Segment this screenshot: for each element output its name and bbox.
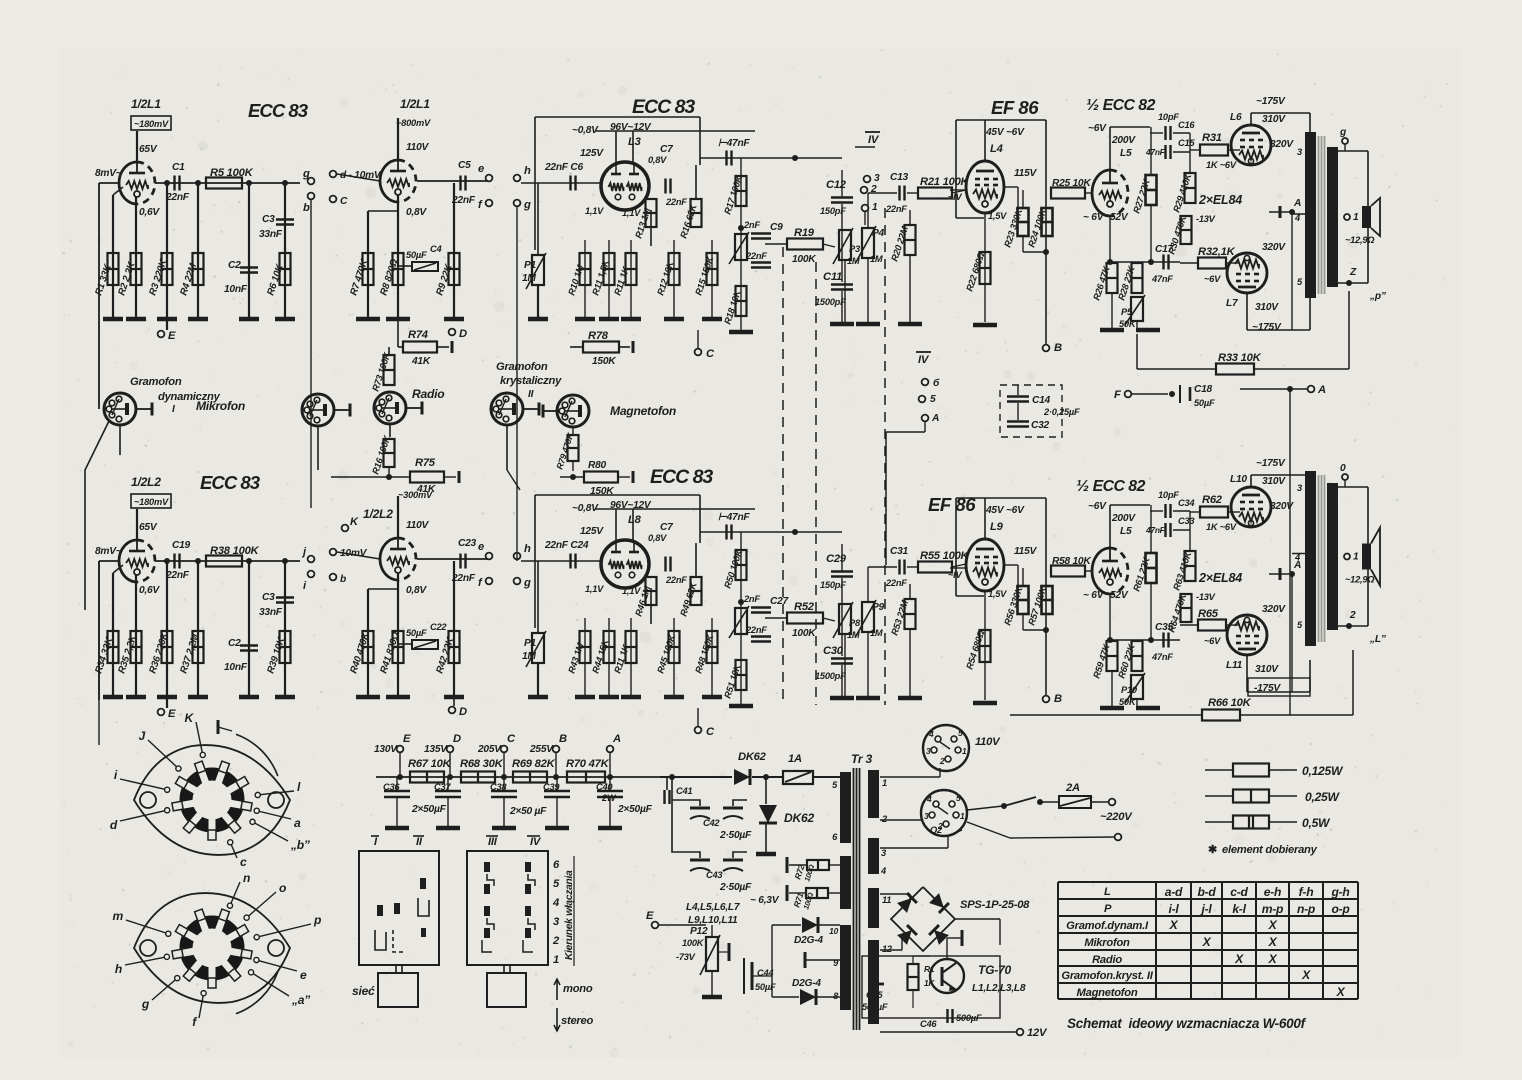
svg-text:1: 1 <box>1353 552 1359 563</box>
svg-text:Magnetofon: Magnetofon <box>1077 987 1138 999</box>
svg-text:2nF: 2nF <box>743 594 760 604</box>
svg-text:R62: R62 <box>1202 494 1223 506</box>
svg-text:R78: R78 <box>588 330 609 342</box>
svg-text:50K: 50K <box>1119 697 1137 707</box>
svg-text:D2G-4: D2G-4 <box>794 935 823 946</box>
svg-text:310V: 310V <box>1255 302 1279 313</box>
svg-text:C39: C39 <box>543 782 560 792</box>
svg-text:III: III <box>488 836 498 848</box>
svg-text:500µF: 500µF <box>956 1013 982 1023</box>
svg-text:50µF: 50µF <box>1194 398 1215 408</box>
svg-text:ECC 83: ECC 83 <box>632 96 695 118</box>
svg-text:E: E <box>168 708 176 720</box>
svg-text:b: b <box>340 574 346 585</box>
svg-text:22nF C6: 22nF C6 <box>544 162 583 173</box>
svg-text:C40: C40 <box>596 782 613 792</box>
svg-text:0: 0 <box>1340 463 1346 474</box>
svg-text:2A: 2A <box>1065 782 1080 794</box>
svg-text:R19: R19 <box>794 227 815 239</box>
svg-text:X: X <box>1336 985 1346 999</box>
svg-text:~175V: ~175V <box>1256 96 1286 107</box>
svg-text:Gramof.dynam.I: Gramof.dynam.I <box>1066 920 1149 932</box>
svg-text:10nF: 10nF <box>224 284 248 295</box>
svg-text:X: X <box>1268 918 1278 932</box>
svg-text:Radio: Radio <box>1092 954 1122 966</box>
svg-text:200V: 200V <box>1111 513 1136 524</box>
svg-text:1,1V: 1,1V <box>622 208 641 218</box>
svg-text:k-l: k-l <box>1232 902 1246 916</box>
svg-text:1,1V: 1,1V <box>585 584 604 594</box>
svg-text:125V: 125V <box>580 526 604 537</box>
svg-text:3: 3 <box>874 173 880 184</box>
svg-text:R74: R74 <box>408 329 429 341</box>
svg-text:2: 2 <box>939 756 945 766</box>
svg-text:n-p: n-p <box>1297 902 1315 916</box>
svg-text:C2: C2 <box>228 638 241 649</box>
svg-text:o-p: o-p <box>1331 902 1349 916</box>
svg-text:L: L <box>1104 886 1111 898</box>
svg-text:C34: C34 <box>1178 498 1195 508</box>
svg-text:E: E <box>646 910 654 922</box>
svg-text:0,6V: 0,6V <box>139 585 160 596</box>
svg-text:h: h <box>524 543 531 555</box>
svg-text:52V: 52V <box>1110 590 1129 601</box>
svg-text:J: J <box>139 729 146 743</box>
svg-text:~180mV: ~180mV <box>134 497 169 507</box>
svg-text:1: 1 <box>1353 212 1359 223</box>
svg-text:1/2L2: 1/2L2 <box>363 507 393 521</box>
svg-text:C22: C22 <box>430 622 447 632</box>
svg-text:h: h <box>524 165 531 177</box>
svg-text:100K: 100K <box>792 628 816 639</box>
svg-text:R33 10K: R33 10K <box>1218 352 1262 364</box>
svg-text:P9: P9 <box>872 602 885 613</box>
svg-text:DK62: DK62 <box>784 811 814 825</box>
svg-text:R80: R80 <box>588 460 607 471</box>
svg-text:C18: C18 <box>1194 384 1213 395</box>
svg-text:1/2L1: 1/2L1 <box>131 97 161 111</box>
svg-text:C32: C32 <box>1031 420 1050 431</box>
svg-text:2·50µF: 2·50µF <box>719 882 752 893</box>
svg-text:R58 10K: R58 10K <box>1052 556 1091 567</box>
svg-text:150K: 150K <box>592 356 616 367</box>
svg-text:1,5V: 1,5V <box>988 589 1007 599</box>
svg-text:1,1V: 1,1V <box>585 206 604 216</box>
svg-text:½ ECC 82: ½ ECC 82 <box>1086 97 1156 114</box>
svg-text:-175V: -175V <box>1254 683 1281 694</box>
svg-text:C5: C5 <box>458 160 471 171</box>
svg-text:C: C <box>340 196 348 207</box>
svg-text:110V: 110V <box>975 736 1001 748</box>
svg-text:500µF: 500µF <box>862 1002 888 1012</box>
svg-text:P1: P1 <box>524 260 537 271</box>
svg-text:P4: P4 <box>872 228 885 239</box>
svg-text:X: X <box>1234 952 1244 966</box>
svg-text:ECC 83: ECC 83 <box>200 472 261 493</box>
svg-text:0,25W: 0,25W <box>1305 790 1341 804</box>
svg-text:Q2: Q2 <box>930 825 943 835</box>
svg-text:stereo: stereo <box>561 1015 593 1027</box>
svg-text:3: 3 <box>553 916 560 928</box>
svg-text:47nF: 47nF <box>1151 652 1173 662</box>
svg-text:C7: C7 <box>660 144 674 155</box>
svg-text:1: 1 <box>882 778 887 788</box>
svg-text:33nF: 33nF <box>259 607 283 618</box>
svg-text:1: 1 <box>872 202 878 213</box>
svg-text:C9: C9 <box>770 222 783 233</box>
svg-text:b-d: b-d <box>1197 885 1216 899</box>
svg-text:g: g <box>302 168 310 180</box>
svg-text:~12,9Ω: ~12,9Ω <box>1345 575 1375 585</box>
svg-text:L4,L5,L6,L7: L4,L5,L6,L7 <box>686 902 741 913</box>
svg-text:R32,1K: R32,1K <box>1198 246 1236 258</box>
svg-text:C30: C30 <box>823 645 844 657</box>
svg-text:P3: P3 <box>849 244 861 254</box>
svg-text:L3: L3 <box>628 136 642 148</box>
svg-text:C4: C4 <box>430 244 442 254</box>
svg-text:o: o <box>279 881 286 895</box>
svg-text:2×50 µF: 2×50 µF <box>509 806 547 817</box>
svg-text:E: E <box>403 733 411 745</box>
svg-text:50µF: 50µF <box>406 250 427 260</box>
svg-text:Gramofon.kryst. II: Gramofon.kryst. II <box>1061 970 1153 982</box>
svg-text:„a”: „a” <box>291 993 311 1007</box>
svg-text:41K: 41K <box>411 356 431 367</box>
svg-text:135V: 135V <box>424 744 448 755</box>
svg-text:C29: C29 <box>826 553 847 565</box>
svg-text:L9: L9 <box>990 521 1004 533</box>
svg-text:~ 6,3V: ~ 6,3V <box>750 895 780 906</box>
svg-text:C: C <box>706 726 715 738</box>
svg-text:0,125W: 0,125W <box>1302 764 1344 778</box>
svg-text:22nF C24: 22nF C24 <box>544 540 589 551</box>
svg-text:50µF: 50µF <box>755 982 776 992</box>
svg-text:1,5V: 1,5V <box>988 211 1007 221</box>
svg-text:I: I <box>172 404 175 415</box>
svg-text:65V: 65V <box>139 144 158 155</box>
svg-text:110V: 110V <box>406 142 429 153</box>
svg-text:-13V: -13V <box>1196 592 1216 602</box>
svg-text:R52: R52 <box>794 601 815 613</box>
svg-text:10: 10 <box>829 926 838 936</box>
svg-text:R69 82K: R69 82K <box>512 758 556 770</box>
svg-text:C38: C38 <box>490 782 507 792</box>
svg-text:22nF: 22nF <box>165 192 190 203</box>
svg-text:L1,L2,L3,L8: L1,L2,L3,L8 <box>972 983 1026 994</box>
svg-text:50µF: 50µF <box>406 628 427 638</box>
svg-text:Z: Z <box>1349 267 1357 278</box>
svg-text:L11: L11 <box>1226 660 1243 671</box>
svg-text:C15: C15 <box>1178 138 1195 148</box>
svg-text:R55 100K: R55 100K <box>920 550 970 562</box>
svg-text:e: e <box>478 541 484 553</box>
svg-text:8mV~: 8mV~ <box>95 546 122 557</box>
svg-text:5: 5 <box>956 793 961 803</box>
svg-text:P10: P10 <box>1121 685 1138 695</box>
svg-text:A: A <box>1293 198 1301 209</box>
svg-text:~180mV: ~180mV <box>134 119 169 129</box>
svg-text:C19: C19 <box>172 540 191 551</box>
svg-text:2×EL84: 2×EL84 <box>1198 571 1242 585</box>
svg-text:0,8V: 0,8V <box>406 207 427 218</box>
svg-text:0,6V: 0,6V <box>139 207 160 218</box>
svg-text:115V: 115V <box>1014 546 1037 557</box>
svg-text:0,8V: 0,8V <box>406 585 427 596</box>
svg-text:320V: 320V <box>1262 604 1286 615</box>
svg-text:C3: C3 <box>262 592 275 603</box>
svg-text:~6V: ~6V <box>1204 274 1221 284</box>
svg-text:Radio: Radio <box>412 387 444 401</box>
svg-text:R1: R1 <box>924 964 935 974</box>
svg-text:1M: 1M <box>522 651 536 662</box>
svg-text:22nF: 22nF <box>885 204 907 214</box>
svg-text:Schemat ideowy wzmacniacza W-: Schemat ideowy wzmacniacza W-600f <box>1067 1016 1307 1031</box>
svg-text:L8: L8 <box>628 514 642 526</box>
svg-text:P1: P1 <box>524 638 537 649</box>
svg-text:p: p <box>313 913 321 927</box>
svg-text:g-h: g-h <box>1330 885 1349 899</box>
svg-text:R75: R75 <box>415 457 436 469</box>
svg-text:1,1V: 1,1V <box>622 586 641 596</box>
svg-text:41K: 41K <box>416 484 436 495</box>
svg-text:47nF: 47nF <box>1145 147 1166 157</box>
svg-text:d: d <box>110 818 118 832</box>
svg-text:~175V: ~175V <box>1256 458 1286 469</box>
svg-text:2·0,25µF: 2·0,25µF <box>1043 407 1080 417</box>
svg-text:m-p: m-p <box>1262 902 1283 916</box>
svg-text:DK62: DK62 <box>738 751 767 763</box>
svg-text:2×50µF: 2×50µF <box>617 804 653 815</box>
svg-text:1M: 1M <box>870 254 883 264</box>
svg-text:R31: R31 <box>1202 132 1222 144</box>
svg-text:C11: C11 <box>823 271 842 283</box>
svg-text:~6V: ~6V <box>1204 636 1221 646</box>
svg-text:C2: C2 <box>228 260 241 271</box>
svg-text:C37: C37 <box>434 782 451 792</box>
svg-text:Gramofon: Gramofon <box>130 376 182 388</box>
svg-text:47nF: 47nF <box>1151 274 1173 284</box>
svg-text:a-d: a-d <box>1165 885 1183 899</box>
svg-text:D: D <box>459 706 467 718</box>
svg-text:X: X <box>1301 968 1311 982</box>
svg-text:10pF: 10pF <box>1158 112 1179 122</box>
svg-text:E: E <box>168 330 176 342</box>
svg-text:1K ~6V: 1K ~6V <box>1206 522 1237 532</box>
svg-text:h: h <box>115 962 122 976</box>
svg-text:L10: L10 <box>1230 474 1247 485</box>
svg-text:б: б <box>933 377 940 389</box>
svg-text:„p”: „p” <box>1369 291 1387 302</box>
svg-text:~6V: ~6V <box>1088 501 1107 512</box>
svg-text:2nF: 2nF <box>743 220 760 230</box>
svg-text:TG-70: TG-70 <box>978 963 1012 977</box>
svg-text:320V: 320V <box>1262 242 1286 253</box>
svg-text:~220V: ~220V <box>1100 811 1133 823</box>
svg-text:„L”: „L” <box>1369 634 1387 645</box>
svg-text:L4: L4 <box>990 143 1004 155</box>
svg-text:1/2L1: 1/2L1 <box>400 97 430 111</box>
svg-text:22nF: 22nF <box>745 251 767 261</box>
svg-text:P8: P8 <box>849 618 861 628</box>
svg-text:100K: 100K <box>682 938 705 948</box>
svg-text:Gramofon: Gramofon <box>496 361 548 373</box>
svg-text:P12: P12 <box>690 926 708 937</box>
svg-text:Mikrofon: Mikrofon <box>196 399 245 413</box>
svg-text:e: e <box>478 163 484 175</box>
svg-text:a: a <box>294 816 301 830</box>
svg-text:Kierunek włączania: Kierunek włączania <box>564 870 575 960</box>
svg-text:45V ~6V: 45V ~6V <box>985 505 1025 516</box>
svg-text:4: 4 <box>926 794 932 804</box>
svg-text:5: 5 <box>553 878 560 890</box>
svg-text:115V: 115V <box>1014 168 1037 179</box>
svg-text:EF 86: EF 86 <box>991 97 1039 118</box>
svg-text:D2G-4: D2G-4 <box>792 978 821 989</box>
svg-text:A: A <box>612 733 621 745</box>
svg-text:~175V: ~175V <box>1252 322 1282 333</box>
svg-text:12: 12 <box>882 944 893 954</box>
svg-text:C27: C27 <box>770 596 790 607</box>
svg-text:i-l: i-l <box>1169 902 1180 916</box>
svg-text:2·50µF: 2·50µF <box>719 830 752 841</box>
svg-text:-73V: -73V <box>676 952 696 962</box>
svg-text:3: 3 <box>924 811 929 821</box>
svg-text:100K: 100K <box>792 254 816 265</box>
svg-text:150K: 150K <box>590 486 614 497</box>
svg-text:5: 5 <box>930 394 936 405</box>
svg-text:sieć: sieć <box>352 984 375 998</box>
svg-text:Tr 3: Tr 3 <box>851 752 872 766</box>
svg-text:R67 10K: R67 10K <box>408 758 452 770</box>
svg-text:C41: C41 <box>676 786 692 796</box>
svg-text:e: e <box>300 968 307 982</box>
svg-text:4: 4 <box>552 897 560 909</box>
svg-text:12V: 12V <box>1027 1027 1048 1039</box>
svg-text:C33: C33 <box>1178 516 1195 526</box>
svg-text:⊢47nF: ⊢47nF <box>718 512 750 523</box>
svg-text:C12: C12 <box>826 179 847 191</box>
svg-text:c: c <box>240 855 247 869</box>
svg-text:2: 2 <box>552 935 560 947</box>
svg-text:~IV: ~IV <box>948 192 963 202</box>
svg-text:g: g <box>523 577 531 589</box>
svg-text:C16: C16 <box>1178 120 1195 130</box>
svg-text:33nF: 33nF <box>259 229 283 240</box>
svg-text:5: 5 <box>958 728 963 738</box>
svg-text:10pF: 10pF <box>1158 490 1179 500</box>
svg-text:3: 3 <box>926 746 931 756</box>
svg-text:110V: 110V <box>406 520 429 531</box>
svg-text:22nF: 22nF <box>885 578 907 588</box>
svg-text:C36: C36 <box>383 782 400 792</box>
svg-text:n: n <box>243 871 250 885</box>
svg-text:~ 6V: ~ 6V <box>1083 590 1105 601</box>
svg-text:~IV: ~IV <box>948 570 963 580</box>
svg-text:22nF: 22nF <box>165 570 190 581</box>
svg-text:P5: P5 <box>1121 307 1133 317</box>
svg-text:1M: 1M <box>522 273 536 284</box>
svg-text:~ 6V: ~ 6V <box>1083 212 1105 223</box>
svg-text:22nF: 22nF <box>665 575 687 585</box>
svg-text:~6V: ~6V <box>1088 123 1107 134</box>
svg-text:0,5W: 0,5W <box>1302 816 1331 830</box>
svg-text:22nF: 22nF <box>745 625 767 635</box>
svg-text:47nF: 47nF <box>1145 525 1166 535</box>
svg-text:R70 47K: R70 47K <box>566 758 610 770</box>
svg-text:A: A <box>1317 384 1326 396</box>
svg-text:C31: C31 <box>890 546 909 557</box>
svg-text:m: m <box>112 909 123 923</box>
svg-text:125V: 125V <box>580 148 604 159</box>
svg-text:65V: 65V <box>139 522 158 533</box>
svg-text:ECC 83: ECC 83 <box>248 100 309 121</box>
svg-text:130V: 130V <box>374 744 398 755</box>
svg-text:g: g <box>141 997 150 1011</box>
svg-text:45V ~6V: 45V ~6V <box>985 127 1025 138</box>
svg-text:j-l: j-l <box>1200 902 1213 916</box>
svg-text:mono: mono <box>563 983 593 995</box>
svg-text:R5 100K: R5 100K <box>210 167 254 179</box>
svg-text:-13V: -13V <box>1196 214 1216 224</box>
svg-text:B: B <box>1054 693 1062 705</box>
svg-text:f-h: f-h <box>1299 885 1314 899</box>
svg-text:1: 1 <box>553 954 559 966</box>
svg-text:Magnetofon: Magnetofon <box>610 404 676 418</box>
svg-text:b: b <box>303 202 310 214</box>
svg-text:X: X <box>1268 952 1278 966</box>
svg-text:C46: C46 <box>920 1019 937 1029</box>
svg-text:C: C <box>507 733 516 745</box>
svg-text:krystaliczny: krystaliczny <box>500 375 562 387</box>
svg-text:L6: L6 <box>1230 112 1242 123</box>
svg-text:R66 10K: R66 10K <box>1208 697 1252 709</box>
svg-text:310V: 310V <box>1262 476 1286 487</box>
svg-text:D: D <box>459 328 467 340</box>
svg-text:C23: C23 <box>458 538 477 549</box>
svg-text:L7: L7 <box>1226 298 1239 309</box>
svg-text:II: II <box>528 389 534 400</box>
svg-text:320V: 320V <box>1270 139 1294 150</box>
svg-text:C: C <box>706 348 715 360</box>
svg-text:A: A <box>931 413 939 424</box>
svg-text:52V: 52V <box>1110 212 1129 223</box>
svg-text:g: g <box>523 199 531 211</box>
svg-text:✱: ✱ <box>1208 844 1217 856</box>
svg-text:310V: 310V <box>1255 664 1279 675</box>
svg-text:X: X <box>1169 918 1179 932</box>
svg-text:R65: R65 <box>1198 608 1219 620</box>
svg-text:22nF: 22nF <box>665 197 687 207</box>
svg-text:~800mV: ~800mV <box>396 118 431 128</box>
svg-text:10nF: 10nF <box>224 662 248 673</box>
svg-text:C7: C7 <box>660 522 674 533</box>
svg-text:11: 11 <box>882 895 891 905</box>
svg-text:P: P <box>1104 903 1112 915</box>
svg-text:EF 86: EF 86 <box>928 494 976 515</box>
svg-text:205V: 205V <box>477 744 502 755</box>
svg-text:1: 1 <box>960 811 965 821</box>
svg-text:C3: C3 <box>262 214 275 225</box>
svg-text:B: B <box>559 733 567 745</box>
svg-text:Mikrofon: Mikrofon <box>1084 937 1130 949</box>
svg-text:50K: 50K <box>1119 319 1137 329</box>
svg-text:C43: C43 <box>706 870 723 880</box>
svg-text:2: 2 <box>870 184 877 195</box>
svg-text:C1: C1 <box>172 162 185 173</box>
svg-text:L5: L5 <box>1120 148 1132 159</box>
svg-text:R25 10K: R25 10K <box>1052 178 1091 189</box>
svg-text:R38 100K: R38 100K <box>210 545 260 557</box>
